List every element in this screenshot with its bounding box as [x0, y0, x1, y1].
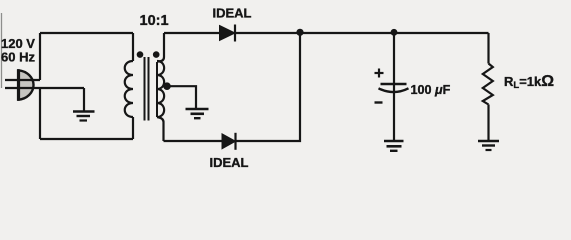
- svg-text:IDEAL: IDEAL: [210, 155, 249, 170]
- svg-text:10:1: 10:1: [140, 13, 169, 29]
- transformer T1 secondary winding: [157, 33, 164, 141]
- node center tap: [163, 82, 171, 90]
- transformer core: [145, 57, 149, 121]
- label IDEAL bottom: [210, 155, 249, 170]
- wire capacitor top lead: [393, 33, 395, 85]
- label 10:1: [140, 13, 169, 29]
- wire resistor bottom lead: [487, 105, 489, 142]
- svg-text:RL=1kΩ: RL=1kΩ: [504, 73, 554, 91]
- ground center tap: [186, 109, 209, 118]
- ground capacitor: [384, 141, 404, 151]
- wire primary left edge lower: [39, 88, 41, 139]
- wire plug top prong: [5, 79, 40, 81]
- wire resistor top lead: [487, 33, 489, 64]
- capacitor C1 100uF polarized: [375, 69, 409, 103]
- scan artifact left edge: [1, 13, 3, 88]
- plug P1 AC source: [19, 69, 34, 100]
- label RL=1k: [504, 73, 554, 91]
- diode D2 ideal: [222, 133, 236, 150]
- label 100 uF: [411, 83, 451, 97]
- wire secondary top to diode D1: [164, 32, 220, 34]
- wire capacitor bottom lead: [393, 84, 395, 141]
- wire primary top rail: [40, 32, 133, 34]
- wire primary bottom rail: [40, 138, 133, 140]
- wire primary left edge upper: [39, 33, 41, 80]
- wire secondary bottom rail to diode D2: [164, 140, 223, 142]
- svg-text:60 Hz: 60 Hz: [1, 50, 35, 65]
- diode D1 ideal: [220, 25, 236, 42]
- svg-text:IDEAL: IDEAL: [213, 6, 252, 21]
- wire top rail D1 to resistor: [235, 32, 489, 34]
- phasing dot secondary: [153, 51, 160, 58]
- resistor RL 1k: [483, 64, 493, 105]
- node junction D2 riser: [296, 29, 303, 36]
- transformer T1 primary winding: [125, 33, 133, 139]
- phasing dot primary: [137, 51, 144, 58]
- wire plug bottom prong to ground branch: [5, 87, 84, 89]
- node junction capacitor: [391, 29, 398, 36]
- svg-text:120 V: 120 V: [1, 36, 35, 51]
- wire primary ground drop: [83, 88, 85, 112]
- label IDEAL top: [213, 6, 252, 21]
- label 120 V 60 Hz: [1, 36, 35, 65]
- wire D2 to riser: [236, 33, 301, 141]
- wire center tap to ground: [167, 86, 196, 109]
- ground resistor: [478, 141, 499, 150]
- ground primary side: [73, 112, 95, 121]
- svg-text:100 μF: 100 μF: [411, 83, 451, 97]
